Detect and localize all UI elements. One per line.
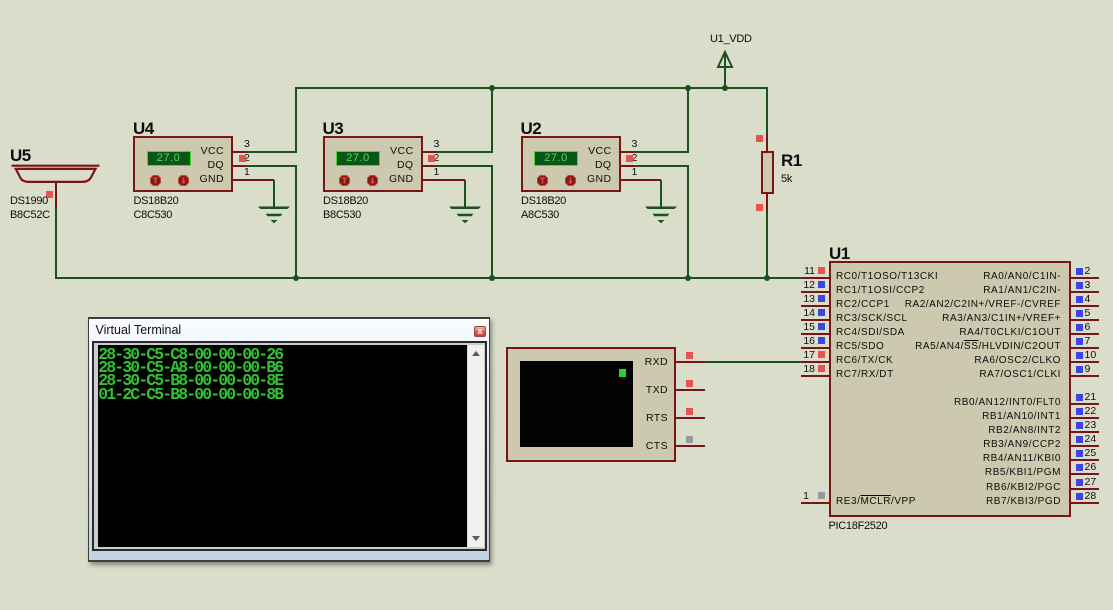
U3 pin 1 GND stub	[423, 179, 465, 181]
wire R1 bottom net	[766, 211, 768, 279]
U1 pin 28 state square	[1076, 493, 1083, 500]
U1 pin number 13	[795, 294, 815, 305]
U1 pin number 28	[1085, 491, 1097, 502]
ground (U4 GND)	[256, 180, 292, 224]
sensor U4 DS18B20	[133, 136, 233, 192]
wire U2 VCC net horiz	[635, 151, 689, 153]
Virtual Terminal window title	[96, 323, 182, 337]
U1 pin 6 stub	[1069, 333, 1099, 335]
U2 pin 2 DQ stub	[621, 165, 635, 167]
U1 pin 6 state square	[1076, 324, 1083, 331]
U1 pin name row 4	[0, 298, 1061, 312]
U1 pin 27 state square	[1076, 479, 1083, 486]
U1 pin 4 state square	[1076, 296, 1083, 303]
wire U4 VCC net horiz	[247, 151, 296, 153]
U2 value DS18B20	[521, 195, 566, 207]
U1 pin number 17	[795, 350, 815, 361]
U1 pin 17 state square	[818, 351, 825, 358]
U5 value DS1990	[10, 195, 48, 207]
U2 LCD display 27.0	[534, 151, 578, 167]
U1 pin 23 stub	[1069, 431, 1099, 433]
U1 pin name row 10	[0, 354, 1061, 368]
U1 pin name row 5	[0, 312, 1061, 326]
label U4	[133, 119, 154, 139]
ground (U3 GND)	[447, 180, 483, 224]
U1 pin number 10	[1085, 350, 1097, 361]
U1 pin number 12	[795, 280, 815, 291]
R1 top state square	[756, 135, 763, 142]
U1 pin number 15	[795, 322, 815, 333]
U1 pin name row 25	[0, 452, 1061, 466]
resistor R1 body	[761, 151, 774, 194]
U1 pin number 7	[1085, 336, 1091, 347]
U1 pin 12 stub	[801, 291, 830, 293]
label R1	[781, 151, 802, 171]
U1 pin 3 stub	[1069, 291, 1099, 293]
U1 pin name RC0/T1OSO/T13CKI	[836, 270, 938, 284]
U4 pin 1 GND stub	[233, 179, 274, 181]
U1 pin number 26	[1085, 462, 1097, 473]
junction DQ bus x491	[489, 275, 495, 281]
U1 pin 10 stub	[1069, 361, 1099, 363]
microcontroller U1 PIC18F2520 body	[829, 261, 1071, 517]
U1 pin 17 stub	[801, 361, 830, 363]
U1 pin 7 state square	[1076, 338, 1083, 345]
U1 pin 27 stub	[1069, 488, 1099, 490]
wire U2 VCC vertical	[687, 87, 689, 153]
U1 pin 9 stub	[1069, 375, 1099, 377]
U1 pin name row 2	[0, 270, 1061, 284]
power symbol U1_VDD	[714, 48, 736, 90]
U1 pin number 4	[1085, 294, 1091, 305]
U3 button up	[339, 175, 350, 186]
Virtual Terminal screen black	[98, 345, 468, 547]
U1 pin name row 28	[0, 495, 1061, 509]
wire U4 DQ vertical	[295, 165, 297, 279]
U4 LCD display 27.0	[147, 151, 191, 167]
U1 pin 7 stub	[1069, 347, 1099, 349]
U4 pin label DQ	[183, 158, 224, 172]
label U1_VDD	[710, 33, 752, 45]
R1 bottom pin	[766, 193, 768, 212]
U1 value PIC18F2520	[829, 520, 888, 532]
Virtual Terminal sunken content frame	[92, 341, 487, 551]
R1 bottom state square	[756, 204, 763, 211]
U1 pin 16 stub	[801, 347, 830, 349]
sensor U2 DS18B20	[521, 136, 621, 192]
U1 pin name row 24	[0, 438, 1061, 452]
U1 pin 14 stub	[801, 319, 830, 321]
sensor U3 DS18B20	[323, 136, 423, 192]
wire U4 VCC vertical	[295, 87, 297, 153]
U1 pin 26 state square	[1076, 464, 1083, 471]
U1 pin name row 9	[0, 368, 1061, 382]
U1 pin name row 7	[0, 340, 1061, 354]
U1 pin number 6	[1085, 322, 1091, 333]
U3 pin label DQ	[373, 158, 414, 172]
U1 pin 21 stub	[1069, 403, 1099, 405]
instrument pin TXD stub	[676, 389, 705, 391]
U5 pin stub	[55, 181, 57, 208]
U1 pin 26 stub	[1069, 473, 1099, 475]
ground (U2 GND)	[643, 180, 679, 224]
U1 pin name row 26	[0, 466, 1061, 480]
U1 pin name row 6	[0, 326, 1061, 340]
U1 pin number 27	[1085, 477, 1097, 488]
U1 pin 11 state square	[818, 267, 825, 274]
junction VDD rail x688	[685, 85, 691, 91]
U1 pin number 21	[1085, 392, 1097, 403]
U2 pin label DQ	[571, 158, 612, 172]
wire U3 VCC net horiz	[437, 151, 493, 153]
U1 pin name row 3	[0, 284, 1061, 298]
wire VDD top rail y87	[295, 87, 768, 89]
U1 pin 14 state square	[818, 309, 825, 316]
U4 code C8C530	[134, 209, 173, 221]
U2 button down	[565, 175, 576, 186]
U1 pin 28 stub	[1069, 502, 1099, 504]
U1 pin name RC6/TX/CK	[836, 354, 893, 368]
U1 pin name RC2/CCP1	[836, 298, 890, 312]
junction DQ bus x295	[293, 275, 299, 281]
U1 pin 24 state square	[1076, 436, 1083, 443]
U1 pin name RC1/T1OSI/CCP2	[836, 284, 925, 298]
U1 pin name row 21	[0, 396, 1061, 410]
U1 pin 18 state square	[818, 365, 825, 372]
instrument pin RTS stub	[676, 417, 705, 419]
instrument pin CTS stub	[676, 445, 705, 447]
U4 pin 2 DQ stub	[233, 165, 247, 167]
U1 pin number 16	[795, 336, 815, 347]
U5 pin state square	[46, 191, 53, 198]
U1 pin name row 27	[0, 481, 1061, 495]
U1 pin 9 state square	[1076, 366, 1083, 373]
U5 code B8C52C	[10, 209, 50, 221]
label U1	[829, 244, 850, 264]
U2 pin label VCC	[571, 144, 612, 158]
U1 pin 1 state square	[818, 492, 825, 499]
U2 pin2 state square	[626, 155, 633, 162]
U2 code A8C530	[521, 209, 559, 221]
U3 pin label GND	[373, 172, 414, 186]
wire RXD to RC6 pin17	[705, 361, 801, 363]
U4 pin label VCC	[183, 144, 224, 158]
Virtual Terminal popup window	[88, 317, 491, 562]
U1 pin name RC5/SDO	[836, 340, 884, 354]
U1 pin name RE3/MCLR/VPP	[836, 495, 916, 509]
U2 pin 1 GND stub	[621, 179, 662, 181]
Virtual Terminal close button	[474, 326, 486, 337]
wire R1 top net	[766, 87, 768, 135]
U2 pin label GND	[571, 172, 612, 186]
instrument RXD state square	[686, 352, 693, 359]
U1 pin number 23	[1085, 420, 1097, 431]
U1 pin 1 stub	[801, 502, 830, 504]
U1 pin name row 22	[0, 410, 1061, 424]
U1 pin 22 stub	[1069, 417, 1099, 419]
U1 pin 5 stub	[1069, 319, 1099, 321]
U1 pin 25 state square	[1076, 450, 1083, 457]
U3 pin 2 DQ stub	[423, 165, 437, 167]
U3 button down	[367, 175, 378, 186]
U1 pin 11 stub	[801, 277, 830, 279]
R1 value 5k	[781, 173, 792, 185]
U3 pin number 3	[434, 139, 440, 150]
U4 button up	[150, 175, 161, 186]
label U5	[10, 146, 31, 166]
Virtual Terminal scrollbar	[467, 345, 484, 547]
U1 pin 25 stub	[1069, 459, 1099, 461]
U1 pin 3 state square	[1076, 282, 1083, 289]
U1 pin 24 stub	[1069, 445, 1099, 447]
U1 pin 13 state square	[818, 295, 825, 302]
U1 pin number 11	[795, 266, 815, 277]
U3 pin number 2	[434, 153, 440, 164]
U1 pin number 22	[1085, 406, 1097, 417]
junction DQ bus x688	[685, 275, 691, 281]
U3 code B8C530	[323, 209, 361, 221]
U1 pin 18 stub	[801, 375, 830, 377]
U1 pin number 14	[795, 308, 815, 319]
U1 pin name RC4/SDI/SDA	[836, 326, 905, 340]
U4 pin 3 VCC stub	[233, 151, 247, 153]
wire U2 DQ vertical	[687, 165, 689, 279]
U2 pin 3 VCC stub	[621, 151, 635, 153]
U1 pin number 1	[795, 491, 809, 502]
instrument pin label RTS	[620, 411, 668, 425]
U3 LCD display 27.0	[336, 151, 380, 167]
instrument RTS state square	[686, 408, 693, 415]
junction VDD rail x492	[489, 85, 495, 91]
U1 pin 2 stub	[1069, 277, 1099, 279]
junction DQ bus x767	[764, 275, 770, 281]
U1 pin 5 state square	[1076, 310, 1083, 317]
U4 pin number 1	[244, 167, 250, 178]
U2 pin number 1	[632, 167, 638, 178]
instrument screen	[520, 361, 633, 448]
U1 pin 15 stub	[801, 333, 830, 335]
iButton U5 DS1990	[8, 163, 103, 185]
U1 pin name RC3/SCK/SCL	[836, 312, 908, 326]
U1 pin name row 23	[0, 424, 1061, 438]
U1 pin number 24	[1085, 434, 1097, 445]
U1 pin 16 state square	[818, 337, 825, 344]
U1 pin 22 state square	[1076, 408, 1083, 415]
junction VDD rail x724	[722, 85, 728, 91]
instrument TXD state square	[686, 380, 693, 387]
U2 button up	[537, 175, 548, 186]
U3 pin number 1	[434, 167, 440, 178]
U2 pin number 3	[632, 139, 638, 150]
U4 value DS18B20	[134, 195, 179, 207]
instrument screen cursor pixel	[619, 369, 627, 377]
U1 pin 4 stub	[1069, 305, 1099, 307]
U1 pin 23 state square	[1076, 422, 1083, 429]
U1 pin number 25	[1085, 448, 1097, 459]
Virtual Terminal green text	[98, 348, 282, 401]
U4 pin number 2	[244, 153, 250, 164]
wire DQ bus y277	[55, 277, 802, 279]
U4 pin number 3	[244, 139, 250, 150]
instrument pin label RXD	[620, 355, 668, 369]
virtual terminal instrument body	[506, 347, 676, 462]
R1 top pin	[766, 134, 768, 152]
label U2	[521, 119, 542, 139]
U1 pin name RC7/RX/DT	[836, 368, 894, 382]
instrument CTS state square	[686, 436, 693, 443]
wire U5 net vertical	[55, 207, 57, 279]
U1 pin 12 state square	[818, 281, 825, 288]
U3 pin label VCC	[373, 144, 414, 158]
U2 pin number 2	[632, 153, 638, 164]
U1 pin 15 state square	[818, 323, 825, 330]
wire U3 DQ net horiz	[437, 165, 493, 167]
U4 button down	[178, 175, 189, 186]
U1 pin number 18	[795, 364, 815, 375]
U1 pin 21 state square	[1076, 394, 1083, 401]
U1 pin 10 state square	[1076, 352, 1083, 359]
U4 pin label GND	[183, 172, 224, 186]
instrument pin RXD stub	[676, 361, 705, 363]
U3 value DS18B20	[323, 195, 368, 207]
U3 pin2 state square	[428, 155, 435, 162]
wire U2 DQ net horiz	[635, 165, 689, 167]
label U3	[323, 119, 344, 139]
wire U3 DQ vertical	[491, 165, 493, 279]
U3 pin 3 VCC stub	[423, 151, 437, 153]
instrument pin label TXD	[620, 383, 668, 397]
U1 pin number 2	[1085, 266, 1091, 277]
U1 pin number 9	[1085, 364, 1091, 375]
U1 pin number 5	[1085, 308, 1091, 319]
U1 pin 13 stub	[801, 305, 830, 307]
wire U3 VCC vertical	[491, 87, 493, 153]
U1 pin number 3	[1085, 280, 1091, 291]
instrument pin label CTS	[620, 439, 668, 453]
wire U4 DQ net horiz	[247, 165, 296, 167]
U1 pin 2 state square	[1076, 268, 1083, 275]
U4 pin2 state square	[239, 155, 246, 162]
